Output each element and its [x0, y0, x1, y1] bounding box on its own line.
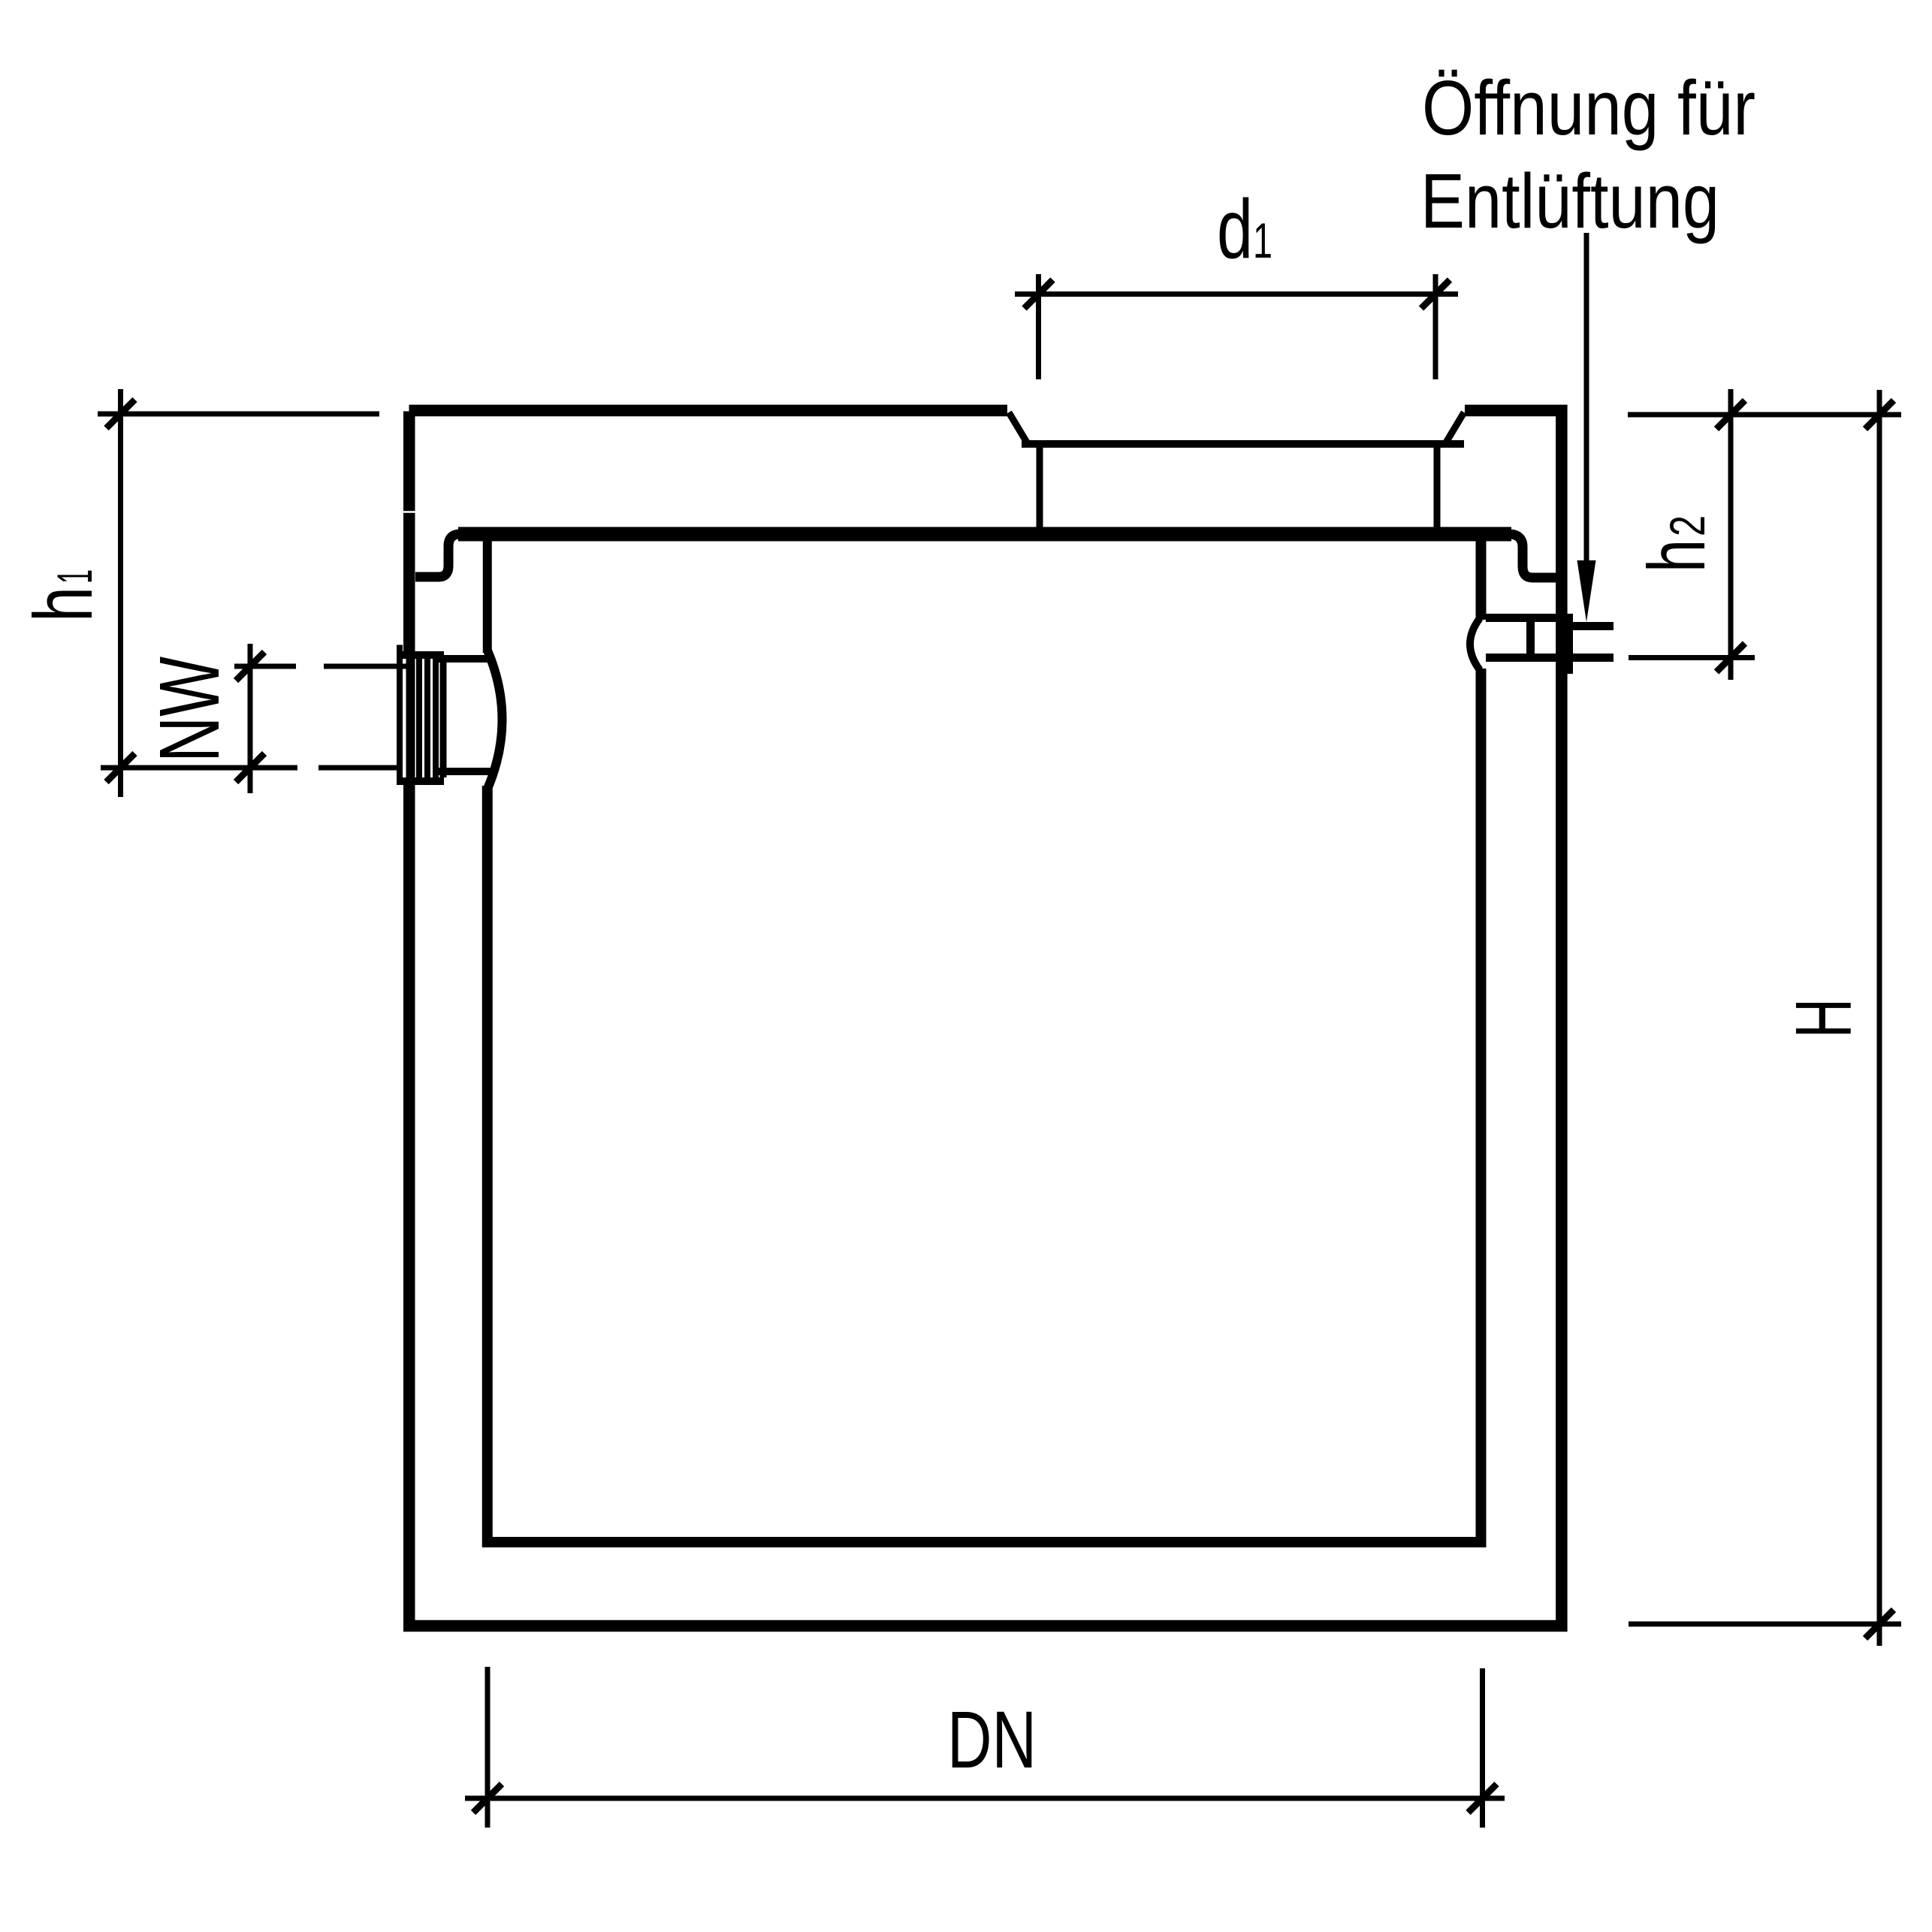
- dim h1 line: [118, 389, 123, 797]
- dim h2/H extension top: [1628, 412, 1901, 418]
- inlet socket: flange: [397, 645, 403, 786]
- vent top line: [1486, 614, 1571, 622]
- top-left corner step: [403, 404, 409, 412]
- svg-text:NW: NW: [142, 657, 237, 762]
- svg-text:H: H: [1780, 998, 1868, 1038]
- vent sleeve joint: [1526, 617, 1535, 658]
- dim h1/NW extension bottom: [101, 765, 398, 771]
- dim h2 extension bottom: [1629, 655, 1755, 660]
- dim H extension bottom: [1629, 1622, 1901, 1627]
- vent bottom line: [1486, 654, 1614, 662]
- manhole neck right: [1434, 442, 1441, 535]
- inlet pipe top: [438, 655, 493, 663]
- dim h2 line: [1728, 389, 1734, 680]
- inner cavity right wall upper segment: [1476, 529, 1487, 620]
- vent step face: [1558, 614, 1573, 674]
- manhole bevel right: [1446, 412, 1464, 442]
- dim h1 extension top: [98, 412, 379, 417]
- inlet socket: white joint between flange and rings: [403, 659, 406, 777]
- vent stub top: [1573, 622, 1614, 630]
- inlet pipe bottom: [438, 768, 493, 775]
- inner cavity left wall upper segment: [483, 529, 492, 653]
- svg-text:1: 1: [1253, 213, 1272, 268]
- inlet socket: bottom cap: [397, 777, 444, 785]
- dim DN line: [465, 1796, 1505, 1801]
- leader arrow line: [1584, 233, 1589, 568]
- manhole neck left: [1037, 442, 1043, 535]
- svg-text:DN: DN: [947, 1694, 1037, 1785]
- svg-text:d: d: [1217, 183, 1253, 276]
- inlet pipe end arc: [488, 651, 503, 789]
- dim d1 extensions: [1039, 274, 1436, 379]
- joint line cover/ring left wall: [403, 511, 416, 513]
- tank outer shell (cover top, left wall, bottom, right wall): [409, 411, 1562, 1626]
- leader arrow head: [1577, 560, 1596, 622]
- dim H line: [1877, 390, 1882, 1646]
- inlet socket: top cap: [397, 651, 444, 659]
- dim NW extension top: [234, 664, 407, 669]
- svg-text:Entlüftung: Entlüftung: [1420, 158, 1719, 244]
- dim d1 line: [1015, 291, 1458, 297]
- manhole seat line: [1022, 440, 1464, 448]
- cover lip left: [415, 534, 460, 577]
- dimension ticks: [107, 280, 1894, 1813]
- inner cavity left wall lower + bottom + right wall lower: [482, 669, 1487, 1542]
- inlet socket: rings: [419, 659, 436, 777]
- dim NW line: [248, 644, 253, 793]
- dim DN extensions: [488, 1667, 1483, 1828]
- vent end arc: [1470, 618, 1480, 670]
- manhole bevel left: [1009, 412, 1027, 442]
- svg-text:Öffnung für: Öffnung für: [1422, 65, 1755, 151]
- cover underside / rim band: [458, 527, 1511, 542]
- cover lip right: [1510, 534, 1556, 578]
